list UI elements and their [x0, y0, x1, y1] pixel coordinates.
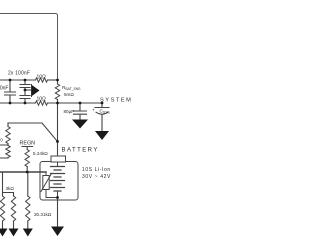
wire SRP rail	[0, 79, 36, 81]
fuse	[51, 156, 66, 162]
svg-text:3kΩ: 3kΩ	[6, 186, 15, 191]
capacitor 100nF	[5, 80, 16, 103]
wire battery column	[57, 103, 59, 156]
battery cells	[57, 162, 59, 167]
svg-text:BATTERY: BATTERY	[62, 148, 99, 154]
resistor divider lower	[6, 146, 10, 158]
battery pack box	[40, 162, 78, 201]
svg-text:10Ω: 10Ω	[37, 97, 47, 103]
resistor R 10ohm top	[36, 78, 48, 82]
capacitor 2x 100nF stack	[20, 80, 30, 103]
svg-text:80µF: 80µF	[64, 109, 75, 114]
svg-text:5mΩ: 5mΩ	[64, 92, 74, 97]
arrow marker	[31, 85, 33, 97]
wire SRN rail	[0, 102, 36, 104]
svg-text:+: +	[92, 108, 95, 113]
ground (battery)	[51, 227, 64, 237]
resistor 5.24kOhm	[25, 150, 29, 167]
net REGN	[22, 147, 33, 150]
capacitor CSYS	[95, 103, 109, 108]
wire TS node	[0, 171, 46, 173]
resistor 3kOhm B	[11, 196, 15, 221]
resistor 30.31kOhm	[27, 172, 29, 196]
thermistor NTC	[45, 172, 47, 176]
svg-text:2x 100nF: 2x 100nF	[8, 71, 30, 77]
ground (system)	[95, 131, 109, 140]
ground (3k B)	[9, 229, 19, 237]
svg-text:0nF: 0nF	[0, 86, 8, 92]
svg-text:5.24kΩ: 5.24kΩ	[33, 151, 48, 156]
wire battery sense diagonal	[8, 123, 58, 142]
resistor 3kOhm A	[2, 193, 4, 197]
wire 3k riser	[3, 172, 14, 196]
svg-text:30V ~ 42V: 30V ~ 42V	[82, 174, 111, 180]
svg-text:10S Li-Ion: 10S Li-Ion	[82, 167, 111, 173]
svg-text:30.31kΩ: 30.31kΩ	[34, 212, 52, 217]
wire top loop to node A	[0, 14, 58, 80]
wire battery negative	[57, 198, 59, 227]
ground (3k A)	[0, 229, 8, 237]
capacitor 80uF	[74, 103, 87, 120]
svg-text:REGN: REGN	[20, 141, 36, 147]
svg-text:0: 0	[0, 138, 3, 143]
resistor divider upper	[7, 123, 9, 127]
ground (80uF)	[72, 120, 88, 129]
junction dots	[9, 79, 104, 199]
ground (30.31k)	[23, 229, 33, 237]
svg-text:SYSTEM: SYSTEM	[100, 98, 132, 104]
resistor RBAT_SNS 5mOhm	[57, 80, 59, 84]
svg-text:10Ω: 10Ω	[37, 75, 47, 81]
resistor R 10ohm bottom	[36, 101, 48, 105]
